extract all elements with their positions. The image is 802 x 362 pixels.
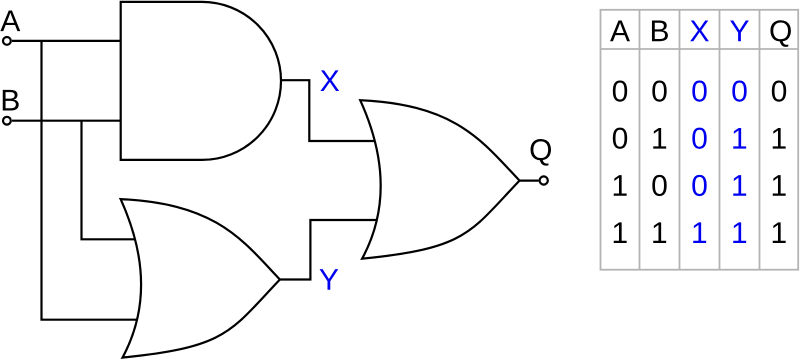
label A: [0, 10, 20, 31]
wire Q: OR2 output to terminal: [516, 180, 539, 182]
input terminal A: [3, 37, 11, 45]
truth table frame: [601, 10, 799, 270]
wire X: AND output to OR2 top input: [278, 80, 378, 141]
truth table header: A B X Y Q: [610, 20, 791, 47]
wire A to OR1 bottom input: [42, 41, 141, 320]
truth table row 3: 1 0 0 1 1: [614, 175, 786, 196]
truth table row 4: 1 1 1 1 1: [614, 222, 786, 243]
label Y: [320, 269, 339, 290]
output terminal Q: [540, 176, 548, 184]
input terminal B: [3, 117, 11, 125]
truth table row 2: 0 1 0 1 1: [613, 128, 786, 149]
label X: [320, 70, 339, 91]
truth table row 1: 0 0 0 0 0: [613, 80, 786, 101]
label Q: [531, 139, 551, 166]
label B: [3, 90, 19, 111]
wire A: [12, 40, 126, 42]
OR gate U2: [121, 199, 280, 358]
wire Y: OR1 output to OR2 bottom input: [276, 220, 378, 280]
wire B to OR1 top input: [82, 121, 141, 240]
AND gate U1: [121, 2, 281, 160]
OR gate U3: [360, 100, 519, 259]
wire B: [12, 120, 126, 122]
